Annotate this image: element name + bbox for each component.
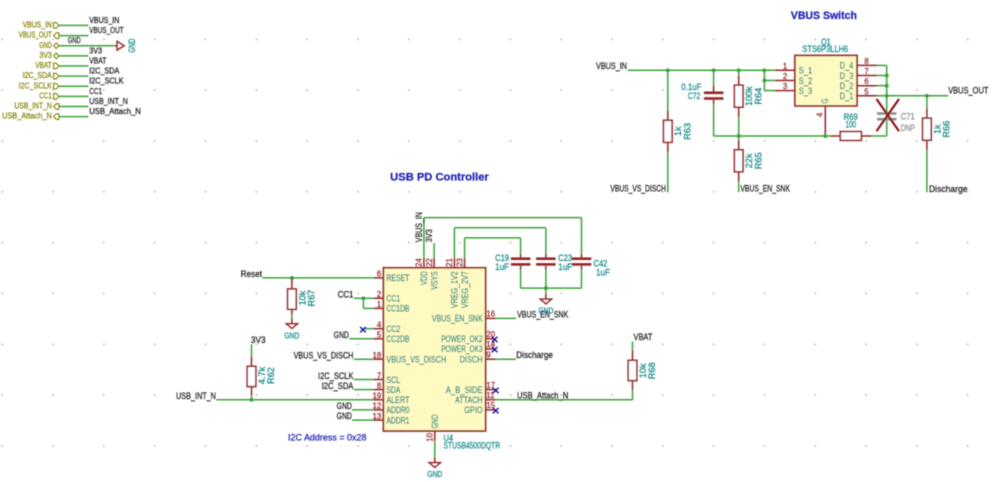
svg-text:D_3: D_3 bbox=[840, 71, 854, 81]
svg-text:DISCH: DISCH bbox=[460, 355, 483, 365]
svg-text:R68: R68 bbox=[647, 362, 657, 379]
svg-text:STUSB4500DQTR: STUSB4500DQTR bbox=[444, 440, 501, 450]
svg-text:3V3: 3V3 bbox=[251, 335, 266, 345]
svg-text:CC1: CC1 bbox=[89, 87, 102, 96]
svg-text:VBUS_EN_SNK: VBUS_EN_SNK bbox=[517, 310, 569, 320]
svg-text:GND: GND bbox=[68, 36, 81, 45]
svg-text:USB_INT_N: USB_INT_N bbox=[176, 391, 216, 401]
svg-text:1uF: 1uF bbox=[558, 262, 572, 272]
svg-text:R67: R67 bbox=[307, 290, 317, 307]
svg-text:21: 21 bbox=[445, 258, 454, 267]
svg-text:VBUS_IN: VBUS_IN bbox=[23, 21, 52, 30]
svg-text:14: 14 bbox=[486, 340, 495, 349]
svg-text:VBUS_EN_SNK: VBUS_EN_SNK bbox=[432, 314, 483, 324]
svg-text:GND: GND bbox=[337, 401, 353, 411]
svg-text:ALERT: ALERT bbox=[386, 395, 409, 405]
svg-text:1: 1 bbox=[783, 62, 787, 71]
svg-text:VREG_2V7: VREG_2V7 bbox=[460, 271, 470, 308]
svg-text:CC1: CC1 bbox=[39, 92, 52, 101]
svg-text:VBAT: VBAT bbox=[35, 61, 52, 70]
svg-text:24: 24 bbox=[415, 257, 424, 266]
svg-text:VBUS_IN: VBUS_IN bbox=[596, 61, 627, 71]
svg-text:7: 7 bbox=[377, 371, 381, 380]
svg-text:GND: GND bbox=[337, 411, 353, 421]
svg-text:1: 1 bbox=[377, 300, 381, 309]
svg-text:USB_Attach_N: USB_Attach_N bbox=[89, 107, 141, 116]
svg-text:I2C_SDA: I2C_SDA bbox=[322, 381, 354, 391]
svg-text:R63: R63 bbox=[682, 123, 692, 140]
svg-text:1uF: 1uF bbox=[596, 267, 610, 277]
svg-text:13: 13 bbox=[373, 412, 382, 421]
svg-text:GND: GND bbox=[127, 38, 137, 53]
svg-text:2: 2 bbox=[377, 290, 381, 299]
svg-text:19: 19 bbox=[373, 392, 382, 401]
svg-text:VBAT: VBAT bbox=[89, 56, 106, 65]
svg-text:DNP: DNP bbox=[901, 123, 915, 133]
svg-text:GND: GND bbox=[334, 330, 350, 340]
svg-text:CC2: CC2 bbox=[386, 324, 400, 334]
svg-text:VBUS_EN_SNK: VBUS_EN_SNK bbox=[740, 184, 790, 194]
svg-text:12: 12 bbox=[373, 402, 382, 411]
svg-text:I2C_SDA: I2C_SDA bbox=[23, 71, 53, 80]
svg-text:18: 18 bbox=[373, 351, 382, 360]
svg-text:CC1: CC1 bbox=[386, 294, 400, 304]
svg-text:VBUS_OUT: VBUS_OUT bbox=[948, 85, 989, 95]
svg-text:VBUS Switch: VBUS Switch bbox=[791, 10, 857, 22]
svg-text:ATTACH: ATTACH bbox=[455, 395, 483, 405]
svg-text:5: 5 bbox=[377, 331, 382, 340]
svg-text:I2C Address = 0x28: I2C Address = 0x28 bbox=[288, 432, 367, 442]
svg-text:GND: GND bbox=[427, 469, 442, 479]
svg-text:6: 6 bbox=[864, 77, 868, 86]
svg-text:USB_Attach_N: USB_Attach_N bbox=[2, 112, 52, 121]
svg-text:STS6P3LLH6: STS6P3LLH6 bbox=[802, 44, 848, 54]
svg-text:SCL: SCL bbox=[386, 375, 400, 385]
svg-text:USB_INT_N: USB_INT_N bbox=[14, 102, 52, 111]
svg-text:D_1: D_1 bbox=[840, 91, 854, 101]
svg-text:VREG_1V2: VREG_1V2 bbox=[450, 271, 460, 308]
svg-text:VBAT: VBAT bbox=[634, 332, 653, 342]
svg-text:RESET: RESET bbox=[386, 273, 409, 283]
svg-text:VBUS_OUT: VBUS_OUT bbox=[89, 26, 123, 35]
svg-text:3V3: 3V3 bbox=[39, 51, 52, 60]
svg-text:23: 23 bbox=[455, 258, 464, 267]
svg-text:USB_INT_N: USB_INT_N bbox=[89, 97, 128, 106]
svg-text:VBUS_VS_DISCH: VBUS_VS_DISCH bbox=[294, 350, 354, 360]
svg-text:4: 4 bbox=[377, 321, 382, 330]
svg-text:3: 3 bbox=[783, 82, 787, 91]
svg-text:I2C_SDA: I2C_SDA bbox=[89, 67, 120, 76]
svg-text:VBUS_VS_DISCH: VBUS_VS_DISCH bbox=[610, 184, 666, 194]
svg-text:USB PD Controller: USB PD Controller bbox=[390, 172, 489, 184]
svg-text:R65: R65 bbox=[753, 152, 763, 169]
svg-text:R66: R66 bbox=[942, 121, 952, 138]
svg-text:5: 5 bbox=[864, 87, 869, 96]
svg-text:GND: GND bbox=[39, 41, 52, 50]
svg-text:I2C_SCLK: I2C_SCLK bbox=[89, 77, 124, 86]
svg-text:I2C_SCLK: I2C_SCLK bbox=[19, 81, 53, 90]
svg-text:ADDR1: ADDR1 bbox=[386, 415, 409, 425]
svg-text:R62: R62 bbox=[266, 367, 276, 384]
svg-text:10: 10 bbox=[426, 432, 435, 441]
svg-text:S_1: S_1 bbox=[799, 66, 813, 76]
svg-text:SDA: SDA bbox=[386, 385, 400, 395]
svg-text:CC2DB: CC2DB bbox=[386, 334, 409, 344]
svg-text:R64: R64 bbox=[753, 88, 763, 105]
svg-text:22: 22 bbox=[425, 258, 434, 267]
svg-text:1uF: 1uF bbox=[495, 262, 509, 272]
svg-text:3V3: 3V3 bbox=[424, 229, 434, 242]
svg-text:7: 7 bbox=[864, 67, 868, 76]
svg-text:ADDR0: ADDR0 bbox=[386, 405, 409, 415]
svg-text:I2C_SCLK: I2C_SCLK bbox=[318, 371, 354, 381]
svg-text:GPIO: GPIO bbox=[464, 405, 482, 415]
svg-text:VBUS_IN: VBUS_IN bbox=[89, 16, 119, 25]
svg-text:D_2: D_2 bbox=[840, 81, 854, 91]
svg-text:GND: GND bbox=[430, 414, 440, 428]
svg-text:3V3: 3V3 bbox=[89, 46, 102, 55]
svg-text:POWER_OK2: POWER_OK2 bbox=[441, 334, 482, 344]
svg-text:8: 8 bbox=[377, 381, 381, 390]
svg-text:100: 100 bbox=[846, 120, 857, 130]
svg-text:Discharge: Discharge bbox=[516, 350, 553, 360]
svg-text:CC1: CC1 bbox=[338, 289, 354, 299]
svg-text:4: 4 bbox=[816, 112, 825, 117]
svg-text:VBUS_IN: VBUS_IN bbox=[414, 212, 424, 242]
svg-text:20: 20 bbox=[486, 330, 495, 339]
svg-text:C72: C72 bbox=[688, 91, 700, 101]
svg-text:S_3: S_3 bbox=[799, 86, 813, 96]
svg-text:6: 6 bbox=[377, 270, 381, 279]
svg-text:8: 8 bbox=[864, 57, 868, 66]
svg-text:2: 2 bbox=[783, 72, 787, 81]
svg-text:C71: C71 bbox=[901, 112, 915, 122]
svg-text:9: 9 bbox=[486, 351, 490, 360]
svg-text:G: G bbox=[820, 99, 830, 104]
svg-text:Discharge: Discharge bbox=[929, 184, 968, 194]
svg-text:GND: GND bbox=[284, 330, 299, 340]
svg-text:VBUS_VS_DISCH: VBUS_VS_DISCH bbox=[386, 355, 446, 365]
svg-text:S_2: S_2 bbox=[799, 76, 813, 86]
svg-text:VDD: VDD bbox=[419, 271, 429, 285]
svg-text:POWER_OK3: POWER_OK3 bbox=[441, 344, 482, 354]
svg-text:Reset: Reset bbox=[241, 269, 263, 279]
svg-text:D_4: D_4 bbox=[840, 61, 854, 71]
svg-text:VSYS: VSYS bbox=[429, 271, 439, 289]
svg-text:VBUS_OUT: VBUS_OUT bbox=[19, 31, 52, 40]
svg-text:CC1DB: CC1DB bbox=[386, 304, 409, 314]
svg-text:A_B_SIDE: A_B_SIDE bbox=[446, 385, 483, 395]
svg-text:16: 16 bbox=[486, 310, 495, 319]
